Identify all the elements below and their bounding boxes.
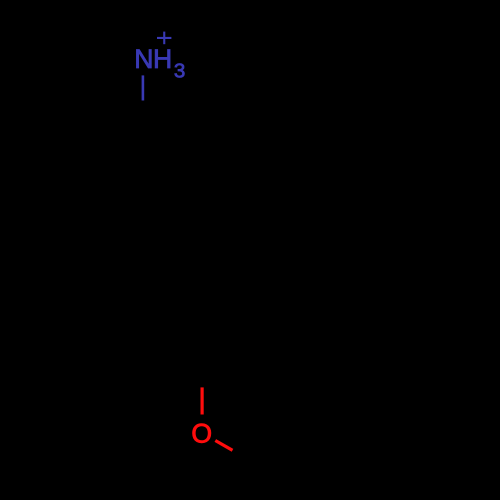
bond C-O (oxygen half, vertical)	[201, 387, 204, 414]
svg-text:O: O	[191, 419, 212, 449]
bond O-CH3 (oxygen half, diagonal)	[215, 441, 232, 451]
svg-text:N: N	[134, 44, 153, 74]
svg-text:3: 3	[174, 59, 185, 82]
charge plus sign	[157, 32, 171, 45]
bond N-C (nitrogen half)	[142, 75, 145, 100]
svg-text:H: H	[153, 44, 172, 74]
